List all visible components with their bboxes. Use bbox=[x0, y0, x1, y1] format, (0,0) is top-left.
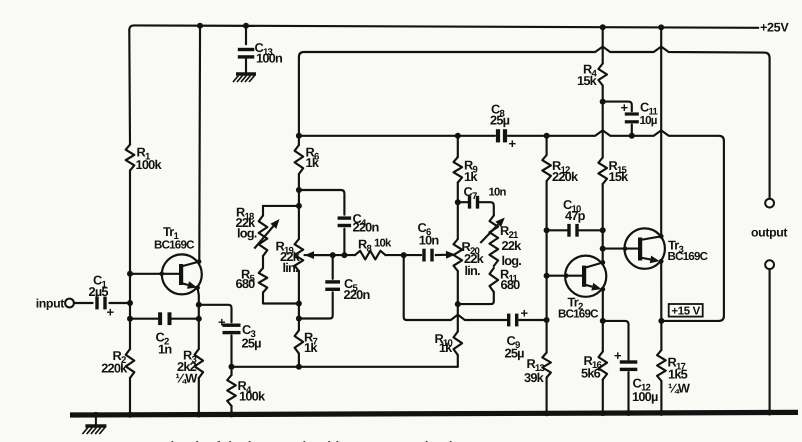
wire input to C1 bbox=[74, 302, 93, 304]
resistor R19 potentiometer 22k lin bbox=[276, 239, 336, 275]
svg-text:+: + bbox=[107, 305, 115, 320]
resistor R9 bbox=[454, 157, 479, 184]
svg-text:1k: 1k bbox=[439, 340, 453, 355]
capacitor C7 bbox=[458, 184, 507, 216]
wire +25V supply rail bbox=[129, 21, 789, 35]
svg-text:100k: 100k bbox=[136, 157, 163, 172]
svg-text:¼W: ¼W bbox=[668, 381, 691, 396]
wire Tr3 emitter line bbox=[658, 261, 664, 416]
wire Tr2 emitter line bbox=[600, 289, 606, 416]
wire Tr1 base bbox=[130, 272, 179, 277]
svg-text:5k6: 5k6 bbox=[581, 366, 601, 381]
svg-text:lin.: lin. bbox=[283, 260, 299, 275]
node +15V label bbox=[669, 304, 703, 317]
svg-text:25µ: 25µ bbox=[505, 346, 525, 361]
wire tone network right vertical bbox=[455, 133, 461, 367]
transistor Tr2 bbox=[558, 256, 606, 321]
resistor R5 680 bbox=[236, 266, 268, 292]
capacitor C9 bbox=[505, 306, 529, 361]
svg-text:+: + bbox=[614, 348, 622, 363]
capacitor C8 bbox=[490, 102, 517, 152]
capacitor C13 bbox=[238, 23, 283, 66]
wire caption fragment bbox=[163, 439, 458, 442]
capacitor C2 bbox=[130, 312, 199, 356]
wire Tr3 collector to +25V rail bbox=[658, 24, 664, 236]
svg-text:22k: 22k bbox=[502, 238, 523, 253]
svg-text:1k: 1k bbox=[304, 340, 318, 355]
wire R11 bottom return bbox=[458, 292, 494, 304]
ground (C13) bbox=[233, 59, 256, 82]
resistor R15 bbox=[598, 158, 629, 185]
ground rail (0V bus) bbox=[70, 410, 798, 418]
node input terminal bbox=[36, 297, 74, 311]
capacitor C10 bbox=[547, 197, 603, 237]
wire feedback line (C3 junction to R7/R10 bottoms) bbox=[232, 364, 458, 370]
svg-text:15k: 15k bbox=[577, 73, 598, 88]
wire R5 branch bottom bbox=[263, 293, 299, 304]
wire treble tap to C9 bbox=[404, 255, 550, 323]
resistor R16 bbox=[581, 352, 607, 381]
resistor R3 bbox=[175, 348, 203, 386]
resistor R2 bbox=[101, 348, 134, 378]
capacitor C5 bbox=[299, 255, 371, 318]
svg-text:100k: 100k bbox=[239, 389, 266, 404]
svg-text:25µ: 25µ bbox=[242, 336, 262, 351]
wire R18 to R5 bbox=[262, 256, 264, 268]
wire R18 branch top bbox=[263, 206, 299, 216]
node output terminal lower bbox=[765, 260, 774, 269]
wire C1 to base node bbox=[109, 300, 133, 306]
resistor R12 bbox=[542, 155, 579, 184]
svg-text:+15 V: +15 V bbox=[671, 305, 700, 317]
wire R1/R2 base line bbox=[127, 23, 203, 418]
resistor R1 bbox=[126, 145, 163, 172]
resistor R4 15k bbox=[577, 62, 607, 89]
svg-text:100n: 100n bbox=[256, 51, 283, 66]
svg-text:680: 680 bbox=[236, 276, 256, 291]
wire Tr1 emitter line bbox=[196, 288, 202, 418]
wire R4-R15 collector line bbox=[600, 24, 606, 262]
svg-text:10µ: 10µ bbox=[640, 114, 657, 127]
svg-text:1k5: 1k5 bbox=[668, 367, 688, 382]
svg-text:+: + bbox=[509, 136, 517, 151]
resistor R18 potentiometer 22k log bbox=[236, 205, 280, 257]
transistor Tr1 bbox=[154, 224, 202, 294]
svg-text:+: + bbox=[218, 315, 226, 330]
svg-text:1k: 1k bbox=[306, 155, 320, 170]
svg-text:BC169C: BC169C bbox=[558, 308, 599, 321]
svg-text:1n: 1n bbox=[158, 342, 172, 357]
node output terminal upper bbox=[751, 199, 787, 240]
svg-text:output: output bbox=[751, 226, 787, 240]
svg-text:220k: 220k bbox=[552, 169, 579, 184]
svg-text:BC169C: BC169C bbox=[668, 250, 709, 263]
svg-text:BC169C: BC169C bbox=[154, 239, 195, 252]
svg-text:680: 680 bbox=[501, 277, 521, 292]
wire output line from tone network top bbox=[299, 47, 770, 199]
svg-text:10n: 10n bbox=[419, 233, 440, 248]
wire Tr3 base bbox=[603, 246, 638, 251]
svg-text:220n: 220n bbox=[344, 287, 371, 302]
resistor R13 bbox=[524, 353, 551, 386]
svg-text:15k: 15k bbox=[609, 169, 630, 184]
svg-text:¼W: ¼W bbox=[175, 371, 198, 386]
wire Tr2 base bbox=[547, 273, 582, 278]
wire Tr1 emitter to C3 bbox=[199, 305, 232, 322]
capacitor C6 bbox=[404, 220, 456, 262]
svg-text:100µ: 100µ bbox=[632, 389, 658, 404]
ground bbox=[82, 412, 106, 434]
wire output ground return bbox=[767, 269, 773, 415]
resistor R21 potentiometer 22k log bbox=[480, 216, 522, 269]
wire tone output line bbox=[299, 130, 724, 321]
resistor R8 10k bbox=[355, 237, 392, 260]
transistor Tr3 bbox=[625, 228, 709, 268]
svg-text:1k: 1k bbox=[464, 169, 478, 184]
capacitor C4 bbox=[299, 190, 380, 258]
svg-text:2µ5: 2µ5 bbox=[89, 284, 109, 299]
svg-text:+: + bbox=[521, 306, 529, 321]
capacitor C11 bbox=[603, 100, 659, 136]
resistor R20 potentiometer 22k lin bbox=[454, 239, 485, 278]
resistor R6 bbox=[295, 145, 320, 175]
wire C3 to R4 junction bbox=[229, 336, 235, 376]
svg-text:25µ: 25µ bbox=[490, 113, 510, 128]
svg-text:220k: 220k bbox=[101, 360, 128, 375]
svg-text:log.: log. bbox=[237, 226, 257, 241]
capacitor C12 bbox=[603, 321, 658, 416]
capacitor C1 bbox=[89, 273, 115, 320]
resistor R10 bbox=[434, 331, 462, 355]
wire Tr2 base bias line bbox=[544, 136, 550, 417]
wire R19 wiper line bbox=[305, 252, 407, 258]
resistor R11 680 bbox=[490, 267, 521, 292]
wire tone network left vertical bbox=[296, 57, 302, 367]
svg-text:+25V: +25V bbox=[760, 21, 789, 35]
capacitor C3 bbox=[218, 315, 261, 351]
svg-text:lin.: lin. bbox=[465, 263, 481, 278]
svg-text:47p: 47p bbox=[565, 208, 586, 223]
svg-text:220n: 220n bbox=[353, 220, 380, 235]
svg-text:input: input bbox=[36, 297, 65, 311]
resistor R4 100k bbox=[227, 375, 266, 417]
svg-text:10n: 10n bbox=[489, 187, 507, 199]
svg-text:39k: 39k bbox=[524, 370, 545, 385]
resistor R17 bbox=[657, 350, 691, 396]
svg-text:10k: 10k bbox=[374, 238, 392, 250]
svg-text:+: + bbox=[621, 100, 629, 115]
wire Tr1 collector to +25V rail bbox=[198, 26, 201, 262]
resistor R7 bbox=[295, 330, 319, 355]
